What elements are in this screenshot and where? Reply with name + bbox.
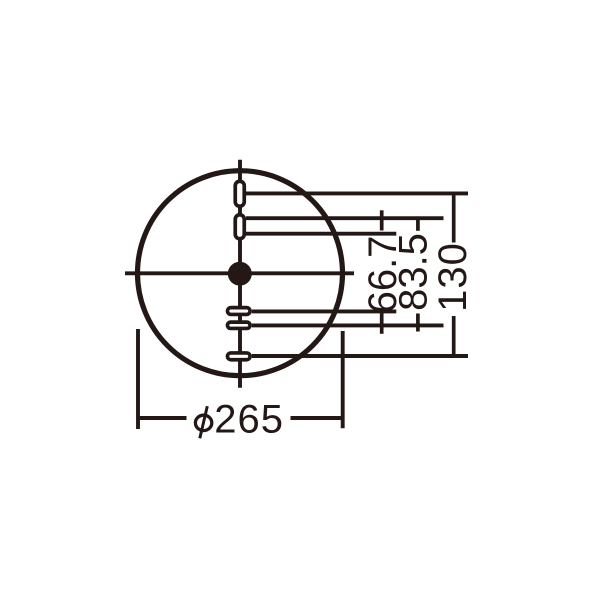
- svg-text:83.5: 83.5: [392, 233, 436, 311]
- svg-text:130: 130: [431, 242, 475, 312]
- svg-text:265: 265: [214, 398, 284, 442]
